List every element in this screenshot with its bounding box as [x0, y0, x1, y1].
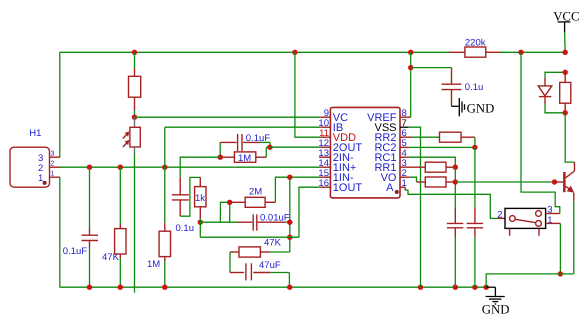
- pin stub VSS pin7 black: [400, 126, 409, 128]
- pin names IC right: [367, 112, 397, 194]
- wire 2M right up to pin15 net: [275, 177, 320, 202]
- wire 1k bottom horizontal: [200, 219, 237, 223]
- wire 1k bottom down leg: [199, 222, 201, 237]
- resistor 2M: [230, 187, 276, 208]
- node junction 1M left: [218, 155, 223, 160]
- connector H1: [10, 128, 60, 187]
- node junction diode bottom: [563, 110, 568, 115]
- resistor parallel with diode: [560, 72, 571, 113]
- wire 47uF right down to rail: [288, 273, 290, 288]
- svg-text:H1: H1: [29, 128, 41, 139]
- capacitor 47uF: [230, 260, 289, 281]
- resistor 1M feedback: [220, 147, 270, 164]
- wire RR2 down to RC2: [474, 137, 476, 147]
- resistor 220k: [449, 37, 500, 57]
- wire collector path: [565, 113, 574, 162]
- capacitor 0.1u top with ground: [411, 68, 484, 107]
- transistor Q NPN: [555, 162, 575, 201]
- node junction x410 y67: [408, 65, 413, 70]
- pin numbers IC left: [318, 108, 329, 189]
- wire vertical net x290: [289, 177, 291, 252]
- svg-text:0.1u: 0.1u: [465, 82, 484, 93]
- wire switch pin3 path from rail x521: [521, 52, 560, 213]
- wire 1M-left junction to 0.1u cap top: [180, 157, 220, 177]
- node junction pin15: [287, 175, 292, 180]
- svg-text:2: 2: [497, 210, 502, 221]
- wire pin16 path: [299, 187, 320, 237]
- wire emitter down: [573, 201, 575, 274]
- wire top rail right of 220k: [500, 51, 565, 53]
- svg-text:220k: 220k: [465, 37, 486, 48]
- resistor vertical upper-left: [129, 52, 141, 117]
- wire LDR bottom down past rails: [134, 154, 136, 293]
- capacitor 0.1uF left: [63, 167, 98, 287]
- pin stubs IC left: [319, 117, 330, 187]
- wire bottom rail: [60, 286, 486, 288]
- wire pin12 to IC: [270, 146, 320, 148]
- node junction pin14 net x89: [87, 165, 92, 170]
- node junction rail x89: [87, 285, 92, 290]
- wire bottom right dog-leg: [486, 274, 574, 287]
- wire 47K left down to 47uF: [229, 252, 231, 273]
- svg-text:1: 1: [38, 173, 43, 184]
- switch S1: [497, 205, 560, 236]
- wire IB pin10 to 1M top: [165, 126, 320, 128]
- power VCC: [553, 10, 579, 53]
- wire H1 pin3 up to top rail: [59, 52, 61, 157]
- node junction RC2: [472, 145, 477, 150]
- wire switch pin1 down: [559, 223, 561, 274]
- svg-text:1: 1: [547, 215, 552, 226]
- node junction 2M left: [227, 200, 232, 205]
- node junction pin1 drop: [558, 271, 563, 276]
- svg-text:2M: 2M: [249, 187, 262, 198]
- wire VDD vertical from rail: [295, 52, 320, 137]
- node junction rail VDD: [292, 50, 297, 55]
- svg-text:0.1uF: 0.1uF: [63, 246, 87, 257]
- capacitor 0.1uF feedback: [220, 133, 270, 157]
- node junction rail x165: [162, 285, 167, 290]
- node junction 0.01uF right: [287, 220, 292, 225]
- svg-text:2: 2: [51, 161, 55, 168]
- node junction rail x290: [287, 285, 292, 290]
- pin 1 marker dot IC: [395, 190, 399, 194]
- ground GND right-pointing: [452, 98, 495, 116]
- node junction rail x521: [518, 50, 523, 55]
- node junction x290 y237: [287, 235, 292, 240]
- svg-text:1OUT: 1OUT: [333, 182, 363, 194]
- node junction 1k bottom: [198, 220, 203, 225]
- node junction rail x134: [132, 50, 137, 55]
- node junction rail end GND: [484, 285, 489, 290]
- wire base net: [455, 181, 554, 183]
- pin names IC left: [333, 112, 363, 194]
- wire VC net to IC pin 9: [135, 116, 321, 118]
- node junction base: [552, 179, 557, 184]
- svg-text:1M: 1M: [238, 153, 251, 164]
- node junction VO resistor: [453, 179, 458, 184]
- node junction pin14 net x120: [118, 165, 123, 170]
- node junction rail x120: [118, 285, 123, 290]
- wire RC2 pin5: [400, 146, 475, 148]
- resistor 1M vertical: [147, 127, 171, 287]
- svg-text:47uF: 47uF: [259, 260, 281, 271]
- wire y237 horizontal: [200, 236, 299, 238]
- capacitor right2: [467, 147, 483, 287]
- resistor 47K left: [102, 167, 126, 287]
- node junction rail x455: [453, 285, 458, 290]
- diode parallel branch: [538, 72, 565, 113]
- wire RC1 pin4: [400, 157, 455, 167]
- node junction pin12: [267, 145, 272, 150]
- svg-text:0.1u: 0.1u: [176, 223, 195, 234]
- node junction pin14 net x165: [162, 165, 167, 170]
- svg-text:A: A: [386, 182, 394, 194]
- resistor RR2 pin6: [400, 132, 475, 142]
- ground GND bottom: [482, 287, 510, 316]
- wire pin1 A path to switch pin2: [400, 187, 505, 218]
- resistor RR1 pin3: [400, 162, 455, 172]
- svg-text:GND: GND: [467, 101, 495, 115]
- wire VSS down to rail: [409, 127, 421, 287]
- svg-text:47K: 47K: [102, 252, 120, 263]
- svg-text:GND: GND: [482, 303, 510, 317]
- wire VREF vertical to rail: [410, 52, 412, 117]
- resistor 47K bottom: [230, 238, 290, 258]
- node junction rail x410: [408, 50, 413, 55]
- op-amp IC U1 body: [330, 107, 400, 197]
- node junction RR1: [453, 165, 458, 170]
- resistor 1k: [195, 177, 206, 218]
- pin numbers IC right: [402, 108, 407, 189]
- svg-text:16: 16: [318, 178, 329, 189]
- svg-text:3: 3: [51, 151, 55, 158]
- node junction rail x420: [418, 285, 423, 290]
- svg-text:1: 1: [51, 171, 55, 178]
- svg-text:0.1uF: 0.1uF: [246, 133, 270, 144]
- node junction VC: [132, 115, 137, 120]
- capacitor 0.1u middle: [172, 177, 194, 234]
- svg-text:0.01uF: 0.01uF: [260, 213, 290, 224]
- svg-text:1k: 1k: [195, 193, 205, 204]
- wire H1 pin2 to IC pin 14: [60, 166, 320, 168]
- svg-text:47K: 47K: [264, 238, 282, 249]
- node junction diode top: [563, 70, 568, 75]
- wire 0.1u bottom to 1k top: [180, 177, 200, 216]
- node junction rail x475: [472, 285, 477, 290]
- node junction rail-VCC: [563, 50, 568, 55]
- wire H1 pin1 down to bottom rail: [59, 177, 61, 287]
- photoresistor LDR: [123, 117, 140, 154]
- resistor VO pin2: [400, 177, 455, 187]
- wire loop up to 2M junction: [220, 202, 229, 222]
- capacitor 0.01uF: [237, 213, 290, 231]
- capacitor right1: [447, 167, 463, 287]
- svg-text:1M: 1M: [147, 259, 160, 270]
- pin stub VREF pin8: [400, 116, 411, 118]
- wire top rail left of 220k: [60, 51, 449, 53]
